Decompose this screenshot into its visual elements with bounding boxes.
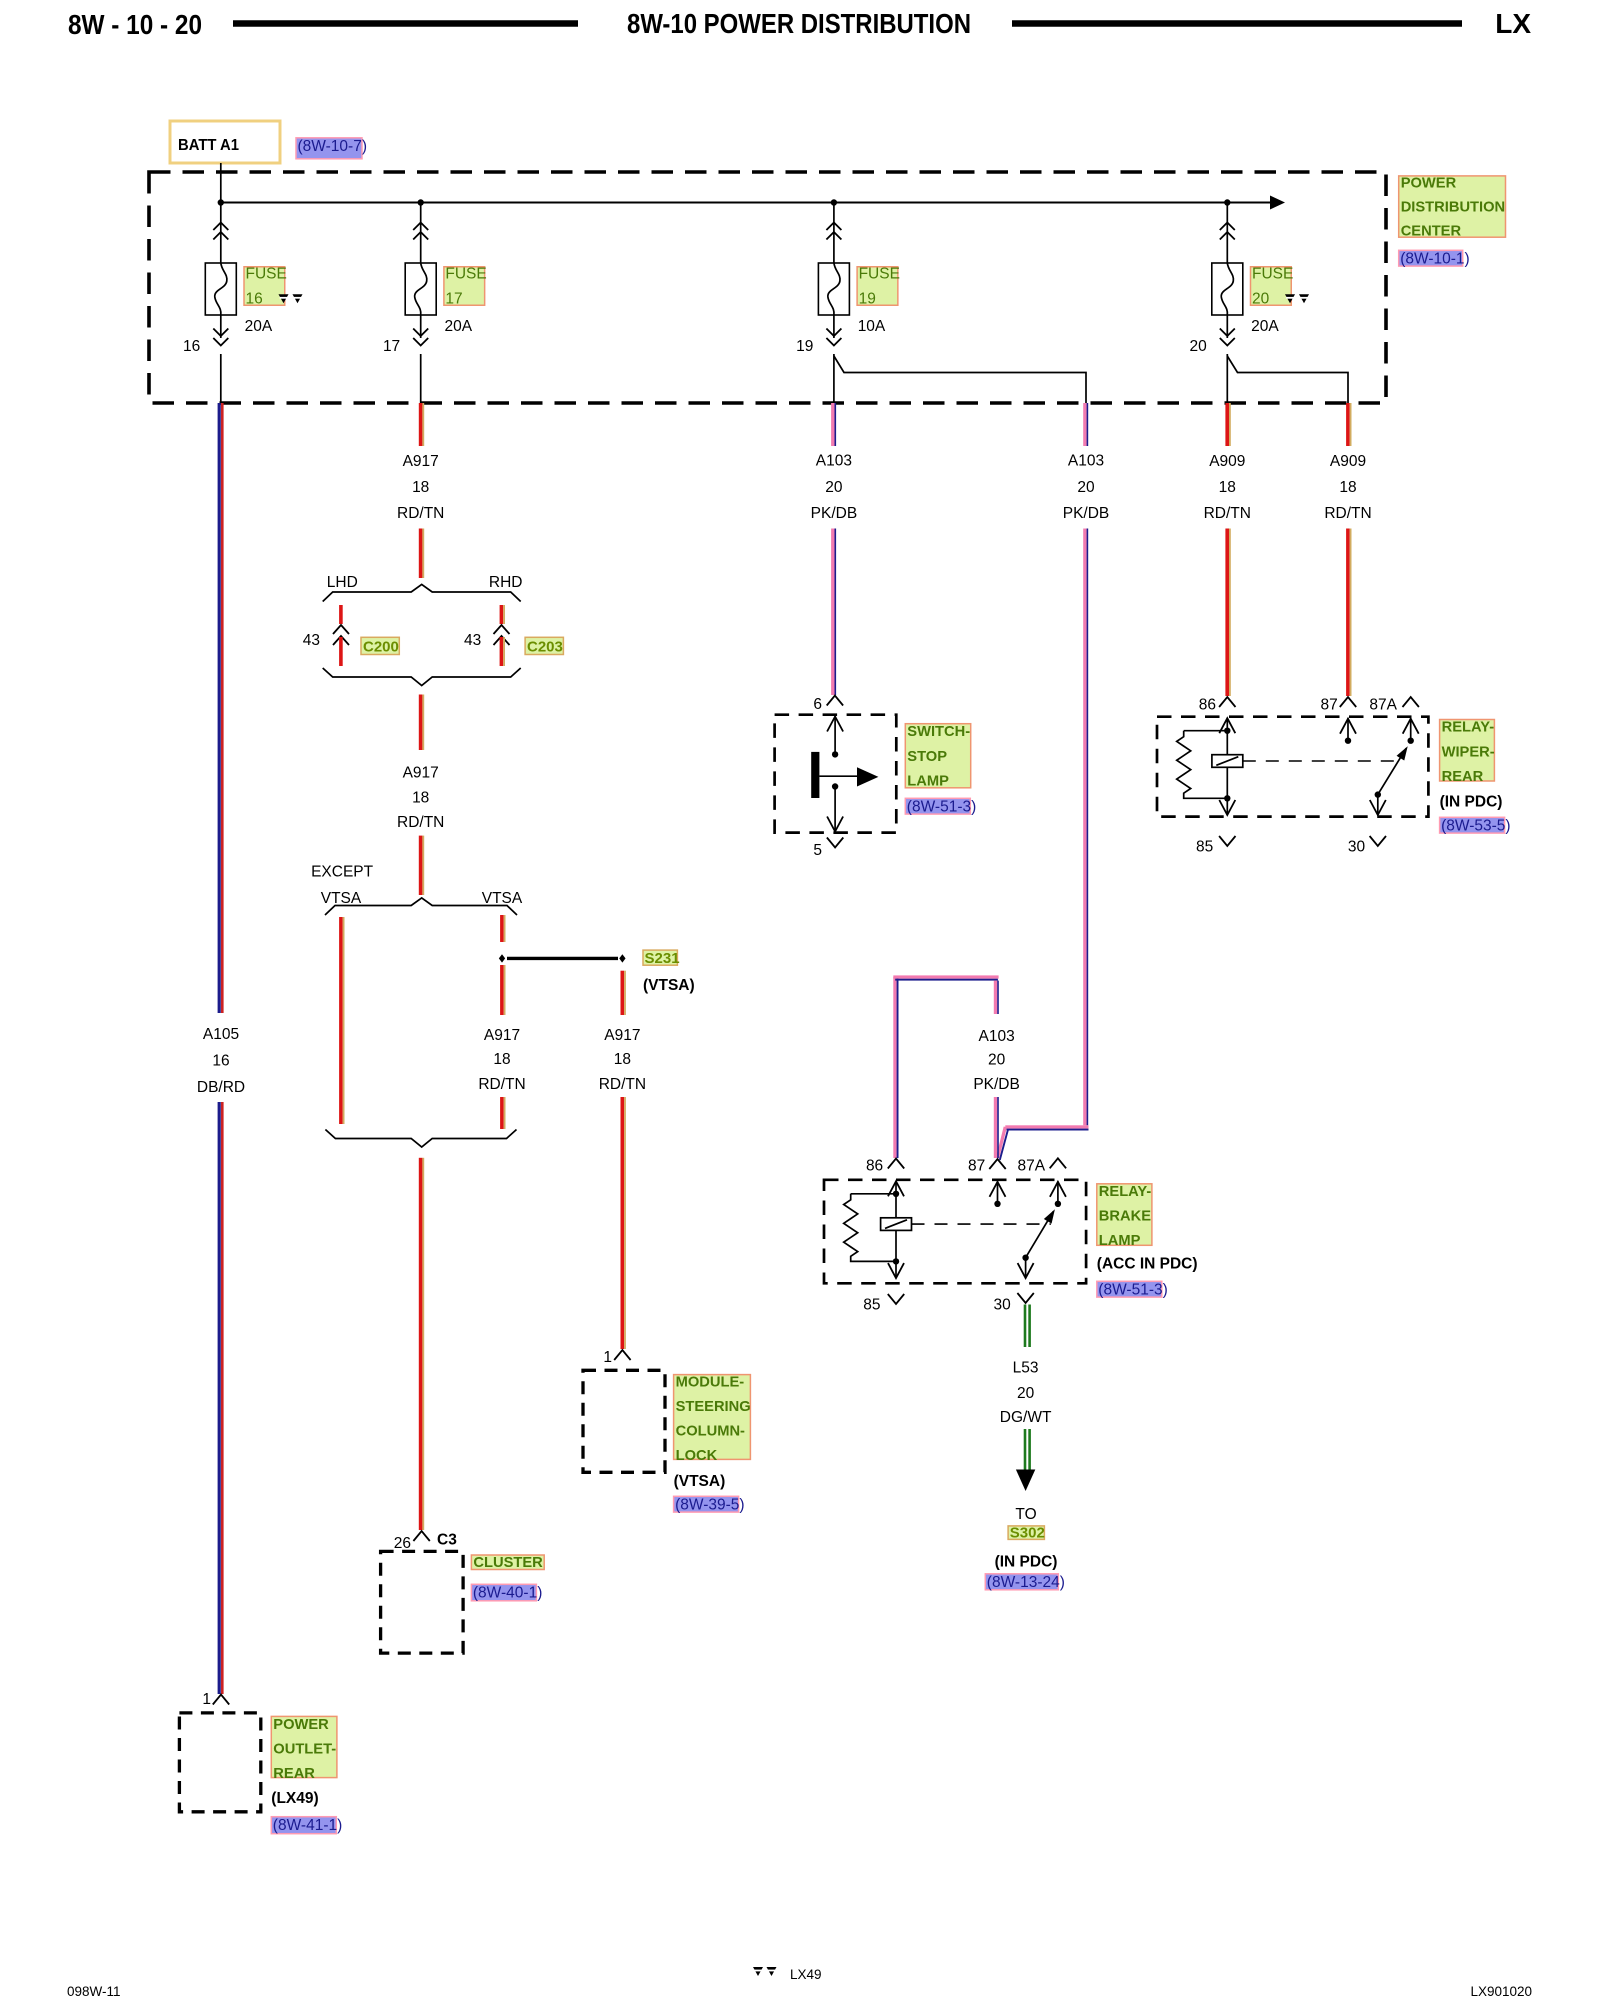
svg-text:A103: A103 bbox=[816, 453, 852, 470]
svg-text:(8W-39-5): (8W-39-5) bbox=[675, 1497, 744, 1514]
svg-text:A917: A917 bbox=[484, 1027, 520, 1044]
svg-text:CLUSTER: CLUSTER bbox=[473, 1555, 543, 1571]
svg-text:L53: L53 bbox=[1013, 1360, 1039, 1377]
svg-text:EXCEPT: EXCEPT bbox=[311, 864, 374, 881]
svg-text:20: 20 bbox=[1077, 479, 1095, 496]
svg-text:STEERING: STEERING bbox=[676, 1399, 751, 1415]
svg-text:DB/RD: DB/RD bbox=[197, 1079, 245, 1096]
svg-text:8W-10 POWER DISTRIBUTION: 8W-10 POWER DISTRIBUTION bbox=[627, 8, 971, 39]
svg-text:FUSE: FUSE bbox=[246, 265, 287, 282]
svg-text:A917: A917 bbox=[403, 453, 439, 470]
svg-text:C200: C200 bbox=[363, 639, 399, 656]
svg-text:30: 30 bbox=[1348, 839, 1366, 856]
svg-text:POWER: POWER bbox=[273, 1717, 329, 1733]
svg-text:C3: C3 bbox=[437, 1532, 457, 1549]
svg-text:VTSA: VTSA bbox=[321, 890, 362, 907]
svg-text:STOP: STOP bbox=[907, 749, 947, 765]
svg-text:RELAY-: RELAY- bbox=[1099, 1184, 1152, 1200]
svg-text:17: 17 bbox=[445, 291, 462, 308]
svg-text:C203: C203 bbox=[527, 639, 563, 656]
svg-text:A917: A917 bbox=[403, 765, 439, 782]
svg-text:COLUMN-: COLUMN- bbox=[676, 1424, 745, 1440]
svg-text:43: 43 bbox=[303, 632, 320, 649]
svg-text:RD/TN: RD/TN bbox=[599, 1076, 646, 1093]
svg-text:26: 26 bbox=[394, 1535, 411, 1552]
svg-text:LX49: LX49 bbox=[790, 1967, 822, 1982]
svg-text:85: 85 bbox=[863, 1297, 880, 1314]
svg-text:A909: A909 bbox=[1209, 453, 1245, 470]
svg-text:REAR: REAR bbox=[273, 1766, 315, 1782]
svg-text:RD/TN: RD/TN bbox=[1204, 505, 1251, 522]
svg-text:43: 43 bbox=[464, 632, 481, 649]
svg-text:87: 87 bbox=[968, 1157, 985, 1174]
svg-text:(8W-51-3): (8W-51-3) bbox=[1098, 1282, 1167, 1299]
svg-text:(IN PDC): (IN PDC) bbox=[1440, 793, 1503, 810]
svg-text:(8W-13-24): (8W-13-24) bbox=[987, 1574, 1065, 1591]
svg-text:20A: 20A bbox=[445, 318, 473, 335]
svg-text:5: 5 bbox=[813, 842, 822, 859]
svg-text:PK/DB: PK/DB bbox=[811, 505, 858, 522]
svg-text:16: 16 bbox=[183, 338, 200, 355]
svg-text:(8W-53-5): (8W-53-5) bbox=[1441, 818, 1510, 835]
svg-text:18: 18 bbox=[1219, 479, 1236, 496]
svg-text:16: 16 bbox=[246, 291, 263, 308]
svg-text:20: 20 bbox=[988, 1052, 1006, 1069]
svg-text:RD/TN: RD/TN bbox=[397, 814, 444, 831]
svg-text:6: 6 bbox=[813, 696, 822, 713]
svg-text:MODULE-: MODULE- bbox=[676, 1374, 745, 1390]
svg-text:A909: A909 bbox=[1330, 453, 1366, 470]
svg-text:FUSE: FUSE bbox=[445, 265, 486, 282]
svg-text:20: 20 bbox=[825, 479, 843, 496]
svg-text:18: 18 bbox=[412, 479, 429, 496]
svg-text:RD/TN: RD/TN bbox=[478, 1076, 525, 1093]
svg-text:RD/TN: RD/TN bbox=[397, 505, 444, 522]
svg-text:RELAY-: RELAY- bbox=[1442, 720, 1495, 736]
svg-text:87: 87 bbox=[1321, 697, 1338, 714]
svg-text:LHD: LHD bbox=[327, 574, 358, 591]
svg-text:87A: 87A bbox=[1369, 697, 1397, 714]
svg-text:20: 20 bbox=[1252, 291, 1270, 308]
svg-text:86: 86 bbox=[866, 1157, 883, 1174]
svg-text:A917: A917 bbox=[604, 1027, 640, 1044]
svg-text:FUSE: FUSE bbox=[859, 265, 900, 282]
svg-text:1: 1 bbox=[202, 1691, 211, 1708]
svg-text:LAMP: LAMP bbox=[1099, 1233, 1141, 1249]
svg-text:RHD: RHD bbox=[489, 574, 523, 591]
svg-text:LX: LX bbox=[1495, 8, 1531, 39]
svg-text:(LX49): (LX49) bbox=[271, 1790, 318, 1807]
svg-text:S302: S302 bbox=[1010, 1525, 1045, 1542]
svg-text:16: 16 bbox=[212, 1052, 229, 1069]
svg-text:17: 17 bbox=[383, 338, 400, 355]
svg-text:TO: TO bbox=[1015, 1506, 1036, 1523]
svg-text:LX901020: LX901020 bbox=[1470, 1984, 1532, 1999]
svg-text:(IN PDC): (IN PDC) bbox=[995, 1554, 1058, 1571]
svg-text:BATT A1: BATT A1 bbox=[178, 137, 239, 154]
svg-text:A105: A105 bbox=[203, 1026, 239, 1043]
svg-text:10A: 10A bbox=[858, 318, 886, 335]
svg-text:18: 18 bbox=[614, 1051, 631, 1068]
svg-text:DG/WT: DG/WT bbox=[1000, 1409, 1052, 1426]
svg-text:REAR: REAR bbox=[1442, 769, 1484, 785]
svg-text:(VTSA): (VTSA) bbox=[643, 977, 695, 994]
svg-text:POWER: POWER bbox=[1401, 176, 1457, 192]
svg-text:(8W-41-1): (8W-41-1) bbox=[273, 1817, 342, 1834]
svg-text:86: 86 bbox=[1199, 697, 1216, 714]
svg-text:OUTLET-: OUTLET- bbox=[273, 1741, 336, 1757]
svg-text:SWITCH-: SWITCH- bbox=[907, 724, 970, 740]
svg-text:WIPER-: WIPER- bbox=[1442, 744, 1495, 760]
svg-text:A103: A103 bbox=[978, 1028, 1014, 1045]
svg-text:20: 20 bbox=[1190, 338, 1208, 355]
svg-text:VTSA: VTSA bbox=[482, 890, 523, 907]
svg-text:18: 18 bbox=[412, 790, 429, 807]
svg-text:20A: 20A bbox=[245, 318, 273, 335]
svg-text:FUSE: FUSE bbox=[1252, 265, 1293, 282]
svg-text:30: 30 bbox=[994, 1297, 1012, 1314]
svg-text:PK/DB: PK/DB bbox=[1063, 505, 1110, 522]
svg-text:(8W-40-1): (8W-40-1) bbox=[473, 1585, 542, 1602]
svg-text:LAMP: LAMP bbox=[907, 773, 949, 789]
svg-text:(8W-10-7): (8W-10-7) bbox=[298, 138, 367, 155]
svg-text:1: 1 bbox=[603, 1349, 612, 1366]
svg-text:18: 18 bbox=[1339, 479, 1356, 496]
svg-text:CENTER: CENTER bbox=[1401, 223, 1462, 239]
svg-text:(8W-51-3): (8W-51-3) bbox=[907, 799, 976, 816]
svg-text:(ACC IN PDC): (ACC IN PDC) bbox=[1097, 1255, 1198, 1272]
svg-text:DISTRIBUTION: DISTRIBUTION bbox=[1401, 200, 1505, 216]
svg-text:(8W-10-1): (8W-10-1) bbox=[1400, 251, 1469, 268]
svg-text:8W - 10 - 20: 8W - 10 - 20 bbox=[68, 9, 202, 40]
svg-text:RD/TN: RD/TN bbox=[1324, 505, 1371, 522]
svg-text:20A: 20A bbox=[1251, 318, 1279, 335]
svg-text:18: 18 bbox=[493, 1051, 510, 1068]
svg-text:LOCK: LOCK bbox=[676, 1448, 718, 1464]
svg-text:19: 19 bbox=[796, 338, 813, 355]
svg-text:BRAKE: BRAKE bbox=[1099, 1209, 1151, 1225]
svg-text:PK/DB: PK/DB bbox=[973, 1076, 1020, 1093]
svg-text:85: 85 bbox=[1196, 839, 1213, 856]
svg-text:19: 19 bbox=[859, 291, 876, 308]
svg-text:S231: S231 bbox=[645, 950, 680, 967]
svg-text:A103: A103 bbox=[1068, 453, 1104, 470]
svg-text:(VTSA): (VTSA) bbox=[674, 1473, 726, 1490]
svg-text:098W-11: 098W-11 bbox=[67, 1984, 121, 1999]
svg-text:87A: 87A bbox=[1018, 1157, 1046, 1174]
svg-text:20: 20 bbox=[1017, 1385, 1035, 1402]
